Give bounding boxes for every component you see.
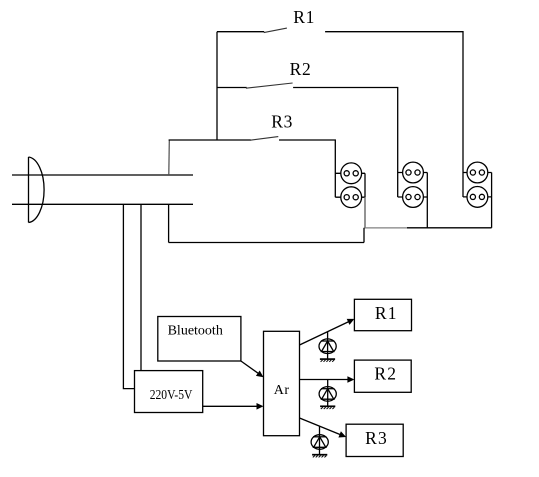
relay box R3 <box>346 424 403 456</box>
wire: R3 branch right segment down to socket group X3 <box>279 140 335 197</box>
wire: neutral bus under sockets (black right part) <box>407 227 492 229</box>
relay contact R1 (switch blade) <box>264 28 287 32</box>
wire: neutral bus under sockets (gray left part) <box>364 227 407 229</box>
svg-text:R1: R1 <box>375 303 398 323</box>
svg-text:R3: R3 <box>271 112 293 132</box>
arrow: Ar to relay R3 <box>300 418 347 438</box>
svg-text:R3: R3 <box>365 428 388 448</box>
wire: X3 right stubs and connector down to neutral bus <box>362 173 365 228</box>
LED D3 (indicator on R3 line) <box>311 426 328 455</box>
svg-text:R2: R2 <box>374 364 397 384</box>
wire: X3 left stubs <box>335 173 341 197</box>
svg-text:220V-5V: 220V-5V <box>150 387 193 402</box>
svg-text:Bluetooth: Bluetooth <box>168 324 223 339</box>
relay box R1 <box>354 299 411 330</box>
svg-text:Ar: Ar <box>274 383 290 398</box>
label R3 <box>271 112 293 132</box>
wire: feeder riser joining R1/R2 branches to phase <box>216 32 218 140</box>
arrow: Ar to relay R2 <box>300 376 355 383</box>
relay contact R2 (switch blade) <box>246 83 293 88</box>
wire: X1 left stubs <box>463 173 467 197</box>
socket X3a (top outlet of group fed by R3) <box>341 163 362 184</box>
converter 220V-5V (box) <box>135 371 203 413</box>
wire: junction box left edge lower segment (neutral down to return) <box>168 204 170 242</box>
wire: X2 right stubs and connector down to neutral bus <box>423 173 427 228</box>
relay contact R3 (switch blade) <box>250 137 278 141</box>
label R3 (relay box) <box>365 428 388 448</box>
arrow: Bluetooth to Ar <box>241 361 264 377</box>
wire: junction box bottom edge (neutral return) <box>169 242 364 244</box>
wire: riser from junction box bottom edge up to neutral bus <box>363 228 365 243</box>
wire: R1 branch right segment down to socket group X1 <box>325 32 463 197</box>
socket X1b (bottom outlet of group fed by R1) <box>467 187 488 208</box>
label R2 (relay box) <box>374 364 397 384</box>
socket X3b (bottom outlet of group fed by R3) <box>341 187 362 208</box>
socket X1a (top outlet of group fed by R1) <box>467 162 488 183</box>
wire: drop from neutral to 220V-5V converter (right, into top) <box>140 204 142 370</box>
label Ar <box>274 383 290 398</box>
label R1 (relay box) <box>375 303 398 323</box>
wire: R3 branch left segment (junction box top edge) <box>169 139 251 141</box>
wire: R2 branch left segment <box>217 87 247 89</box>
arrow: Ar to relay R1 <box>300 319 355 345</box>
wire: X2 left stubs <box>398 173 403 198</box>
wire: phase lead from plug pins to junction box <box>12 174 193 176</box>
label Bluetooth <box>168 324 223 339</box>
svg-text:R1: R1 <box>293 7 315 27</box>
relay box R2 <box>354 360 411 392</box>
wire: neutral lead from plug pins to junction box <box>12 203 193 205</box>
svg-text:R2: R2 <box>290 59 312 79</box>
arrow: 220V-5V converter to Ar <box>203 403 264 410</box>
label 220V-5V <box>150 387 193 402</box>
wire: junction box left edge upper segment (phase tap up to R3 branch) <box>168 140 171 175</box>
wire: drop from neutral to 220V-5V converter (left, into side) <box>123 204 134 388</box>
wire: X1 right stubs and connector down to neutral bus <box>488 173 492 228</box>
ground (under D1) <box>320 359 335 362</box>
wire: R1 branch left segment <box>217 31 264 33</box>
label R2 <box>290 59 312 79</box>
wire: R2 branch right segment down to socket group X2 <box>293 88 398 198</box>
socket X2b (bottom outlet of group fed by R2) <box>403 187 424 208</box>
LED D1 (indicator on R1 line) <box>319 332 336 359</box>
label R1 <box>293 7 315 27</box>
ground (under D2) <box>320 406 335 409</box>
module Bluetooth (box) <box>158 317 241 362</box>
LED D2 (indicator on R2 line) <box>319 380 336 407</box>
controller U1 Ar (Arduino box) <box>264 331 300 435</box>
ground (under D3) <box>312 455 327 458</box>
socket X2a (top outlet of group fed by R2) <box>403 162 424 183</box>
plug P1 (220V wall plug body) <box>29 157 45 223</box>
